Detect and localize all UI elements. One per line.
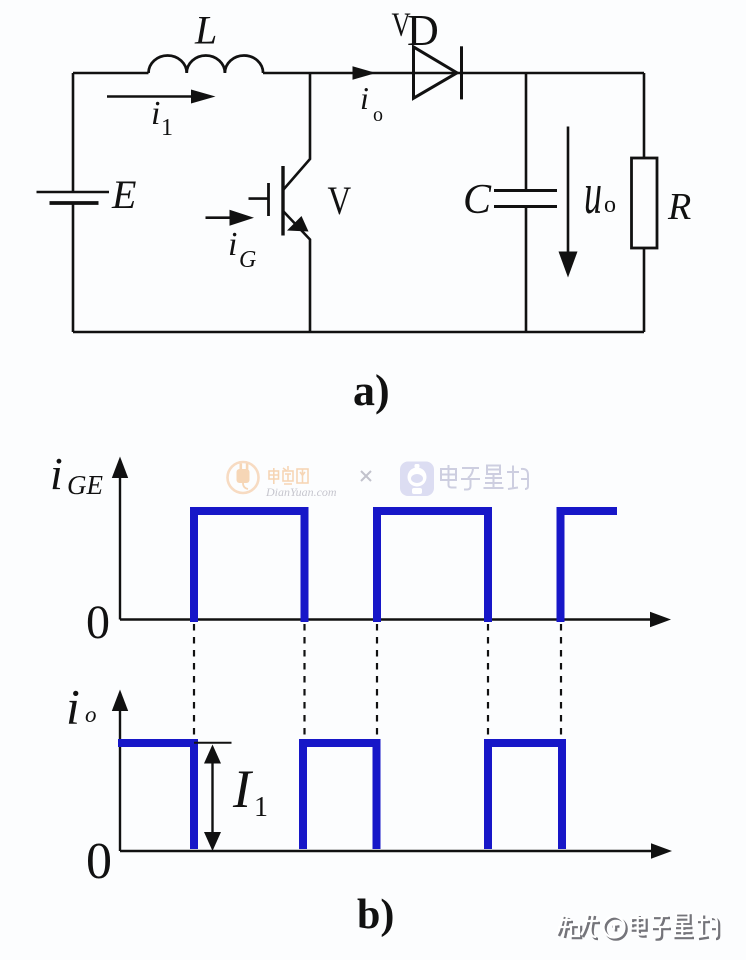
svg-text:L: L <box>194 8 217 53</box>
svg-text:u: u <box>584 161 602 226</box>
svg-text:i: i <box>151 95 160 132</box>
svg-text:E: E <box>111 172 136 217</box>
svg-text:0: 0 <box>86 833 112 890</box>
svg-text:1: 1 <box>254 792 268 823</box>
svg-text:C: C <box>463 177 492 223</box>
svg-text:G: G <box>239 247 256 273</box>
svg-text:i: i <box>228 226 237 263</box>
svg-text:i: i <box>50 448 63 499</box>
svg-text:I: I <box>232 759 254 819</box>
svg-text:o: o <box>604 192 616 218</box>
svg-text:i: i <box>66 679 80 735</box>
svg-text:1: 1 <box>161 115 173 141</box>
svg-text:o: o <box>85 702 97 727</box>
svg-text:R: R <box>667 186 691 228</box>
svg-text:V: V <box>328 178 352 223</box>
svg-text:GE: GE <box>67 470 103 500</box>
svg-text:o: o <box>373 104 383 126</box>
svg-text:0: 0 <box>86 596 110 649</box>
svg-text:b): b) <box>357 892 394 938</box>
svg-text:a): a) <box>353 366 390 415</box>
svg-text:D: D <box>407 6 439 55</box>
svg-text:DianYuan.com: DianYuan.com <box>265 485 337 499</box>
svg-text:i: i <box>360 80 369 116</box>
